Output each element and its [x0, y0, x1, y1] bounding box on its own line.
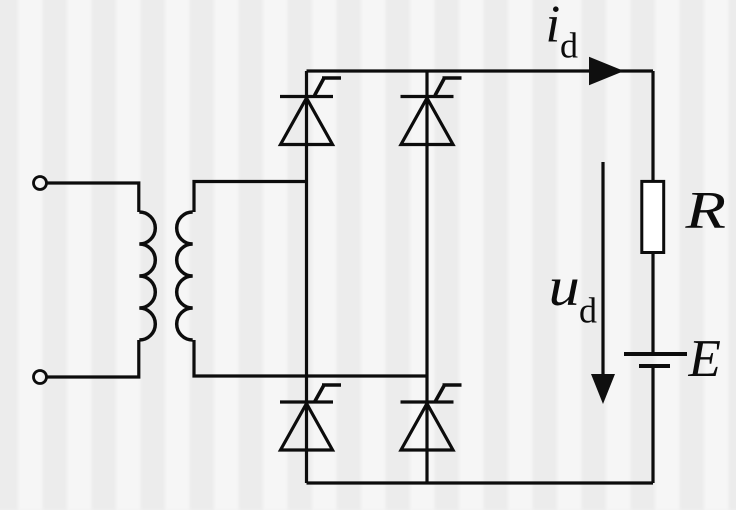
wire bottom dc rail [307, 481, 654, 484]
thyristor T2 [280, 385, 341, 450]
wire left bridge leg [305, 71, 308, 483]
wire battery to bottom [651, 368, 654, 483]
arrow u_d shaft [601, 162, 604, 376]
wire right bridge leg [425, 71, 428, 483]
battery E long plate [624, 352, 687, 356]
wire resistor to battery [651, 254, 654, 353]
wire primary bottom [47, 340, 139, 377]
thyristor T3 [401, 78, 462, 145]
thyristor T4 [401, 385, 462, 450]
battery E short plate [639, 364, 670, 368]
wire top dc rail [307, 69, 654, 72]
wire right branch top [651, 71, 654, 180]
svg-text:R: R [684, 181, 726, 239]
arrow u_d head [591, 374, 615, 404]
svg-text:i: i [546, 0, 561, 54]
wire primary top [47, 183, 139, 212]
thyristor T1 [280, 78, 341, 145]
wire secondary top to bridge [194, 182, 307, 213]
svg-text:E: E [688, 330, 721, 388]
svg-text:d: d [560, 26, 578, 66]
transformer secondary winding [177, 212, 193, 340]
svg-text:u: u [549, 255, 580, 317]
terminal bottom [34, 371, 47, 384]
resistor R [642, 181, 664, 252]
wire secondary bottom to bridge [194, 340, 427, 376]
terminal top [34, 177, 47, 190]
transformer primary winding [139, 212, 155, 340]
arrow i_d [589, 57, 624, 85]
svg-text:d: d [579, 291, 597, 331]
